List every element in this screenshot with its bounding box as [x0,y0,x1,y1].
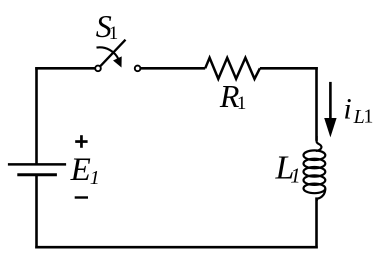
label - (negative terminal of E1) [75,196,88,198]
wire: left vertical segment from top-left corner down to battery E1 top plate [35,67,38,164]
inductor L1 coil turn 5 [304,184,326,194]
inductor L1 coil turn 3 [304,167,326,177]
label E1 (battery value) [70,152,100,189]
inductor L1 [304,136,326,201]
switch S1 [95,40,140,71]
inductor L1 coil turn 4 [304,175,326,185]
switch S1 blade [100,40,125,66]
resistor R1 [205,58,260,79]
svg-text:i: i [343,93,351,126]
svg-text:1: 1 [237,93,247,114]
wire: top-left segment from battery branch to switch S1 left terminal [37,67,96,68]
svg-text:1: 1 [90,167,100,189]
label S1 (switch) [96,8,118,44]
wire: top segment from switch S1 right terminal to resistor R1 [140,67,205,70]
switch S1 right terminal [135,66,141,72]
label iL1 (inductor current) [343,93,373,129]
inductor L1 entry hook from top wire [316,136,322,151]
battery E1 bottom (short, negative) plate [17,173,57,176]
wire: bottom horizontal segment [35,246,317,249]
wire: top segment from resistor R1 to top-right corner [260,67,318,70]
switch S1 left terminal [95,66,101,72]
wire: left vertical segment from battery E1 bottom plate down to bottom-left corner [35,175,38,249]
svg-text:1: 1 [290,164,301,188]
svg-text:1: 1 [363,106,373,128]
wire: right vertical segment from inductor L1 down to bottom-right corner [315,197,318,248]
label R1 (resistor) [219,78,247,114]
wire: right vertical segment from top-right corner down to inductor L1 [315,67,318,141]
svg-text:1: 1 [109,23,119,44]
svg-text:E: E [70,152,91,188]
current arrow iL1 (direction of inductor current) [324,82,336,137]
inductor L1 exit hook to bottom wire [317,189,326,201]
label + (positive terminal of E1) [75,135,87,148]
inductor L1 coil turn 1 [304,150,326,160]
battery E1 top (long, positive) plate [8,163,66,166]
inductor L1 coil turn 2 [304,159,326,169]
switch S1 closing-motion arc arrow [97,47,119,59]
label L1 (inductor) [275,149,301,187]
